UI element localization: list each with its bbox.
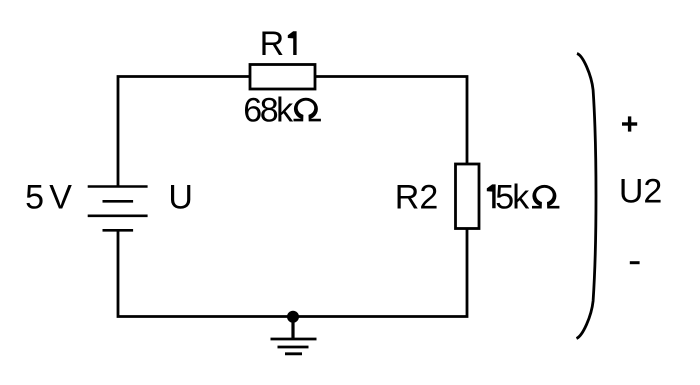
ground bar 3	[285, 352, 302, 355]
battery U plate 4 short	[103, 229, 134, 232]
battery U plate 2 short	[103, 200, 134, 203]
svg-text:U: U	[168, 179, 193, 217]
label +	[622, 116, 637, 131]
junction node dot	[287, 311, 299, 323]
resistor R2	[456, 164, 480, 229]
ground stub wire	[291, 317, 294, 340]
svg-text:V: V	[49, 179, 72, 217]
ground bar 1	[271, 338, 317, 341]
ground bar 2	[278, 346, 309, 349]
svg-text:R: R	[260, 25, 285, 63]
brace arc for U2	[577, 54, 597, 339]
wire: R2 bottom, bottom wire, up to battery bottom	[118, 229, 467, 317]
svg-text:5: 5	[25, 179, 44, 217]
svg-text:R2: R2	[395, 179, 438, 217]
svg-text:5k: 5k	[495, 179, 530, 217]
label -	[630, 261, 640, 264]
svg-text:68k: 68k	[243, 92, 294, 130]
value 68kΩ	[243, 92, 321, 130]
svg-text:U2: U2	[619, 173, 662, 211]
label R1	[260, 25, 297, 63]
label 5 V	[25, 179, 72, 217]
battery U plate 1 long	[88, 185, 148, 188]
value 15kΩ	[487, 179, 560, 217]
wire: R1 right to top-right corner down to R2 top	[315, 77, 467, 165]
wire: battery top up and across to R1 left	[118, 77, 250, 187]
resistor R1	[250, 65, 315, 90]
battery U plate 3 long	[88, 215, 148, 218]
